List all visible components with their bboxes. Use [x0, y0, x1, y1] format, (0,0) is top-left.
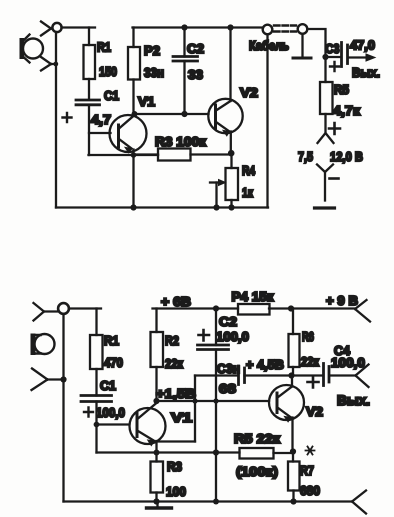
svg-text:C1: C1 [100, 378, 116, 393]
junction dot C3 branch [322, 54, 328, 60]
cable hatch [274, 26, 296, 32]
svg-text:12,0 В: 12,0 В [330, 149, 363, 164]
junction dot R4/bottom rail [228, 204, 234, 210]
svg-text:Вых.: Вых. [352, 65, 380, 80]
label + supply [329, 123, 340, 134]
junction dot R6/rail [288, 305, 294, 311]
svg-text:68: 68 [219, 381, 236, 396]
output arrow (top circuit) [350, 54, 376, 61]
svg-text:Р4 15к: Р4 15к [232, 289, 275, 304]
junction dot R7/bottom rail [290, 498, 296, 504]
junction dot C2/top rail (bottom) [213, 305, 219, 311]
svg-text:1к: 1к [242, 185, 253, 200]
resistor R2 (P2) [128, 28, 140, 115]
connector node circle (bottom circuit) [58, 303, 69, 314]
svg-text:Вых.: Вых. [337, 393, 370, 408]
svg-text:22к: 22к [165, 356, 183, 371]
svg-text:7,5: 7,5 [298, 149, 313, 164]
junction blob C3 leg/base line [192, 398, 197, 403]
capacitor C2 (bottom circuit) [198, 309, 229, 502]
svg-text:R4: R4 [242, 163, 256, 178]
battery connector lower chevron [317, 165, 333, 201]
junction dot C2/feedback [213, 449, 219, 455]
wire: V2 collector up [291, 376, 293, 387]
wire: top rail segment 2 (bottom circuit) [153, 307, 239, 309]
junction blob emitter/R3 line [131, 152, 137, 158]
junction blob base line [94, 422, 100, 428]
wire: emitter link line [157, 440, 196, 442]
wire: V1 emitter to bottom rail [132, 150, 134, 208]
svg-text:47,0: 47,0 [350, 38, 375, 53]
capacitor C2 (top circuit) [173, 28, 198, 115]
resistor P4 [238, 304, 270, 315]
svg-text:R2: R2 [165, 333, 179, 348]
microphone B1 (bottom circuit) [31, 334, 55, 356]
plug arrow input bottom [41, 57, 56, 71]
wire: V1 emitter to R3 [155, 441, 157, 462]
svg-text:Р2: Р2 [144, 43, 160, 58]
svg-text:680: 680 [300, 483, 320, 498]
svg-text:R6: R6 [302, 329, 314, 344]
junction dot emitter V2/R3/R4 [228, 150, 235, 157]
resistor R6 [289, 309, 300, 376]
svg-text:470: 470 [104, 355, 123, 370]
svg-text:4,7: 4,7 [91, 112, 111, 127]
resistor R5 [320, 82, 333, 133]
wire: V2 emitter down [291, 418, 293, 449]
svg-text:33н: 33н [144, 65, 164, 80]
junction blob lower arrow [60, 376, 66, 382]
transistor V1 (bottom circuit) [130, 403, 166, 446]
ground symbol (bottom circuit) [147, 502, 172, 509]
svg-text:R3 100к: R3 100к [155, 134, 207, 149]
wire: V1 base line (bottom) [97, 423, 130, 425]
bottom-right terminal chevron [352, 491, 366, 514]
resistor R4 (trimmer) [226, 155, 239, 208]
wire: left vertical (bottom circuit) [62, 314, 64, 502]
capacitor C4 [292, 364, 356, 386]
resistor R1 [84, 28, 96, 100]
junction dot V2 emitter/R5/R7 [290, 448, 296, 454]
svg-text:R1: R1 [97, 40, 111, 55]
cable connector circle 2 [298, 24, 308, 34]
microphone B1 (top circuit) [20, 35, 44, 63]
resistor R7 [288, 452, 300, 502]
svg-text:R5 22к: R5 22к [234, 431, 281, 446]
resistor R3 [134, 149, 231, 161]
svg-text:R1: R1 [104, 333, 119, 348]
capacitor C1 (top circuit) [76, 100, 100, 155]
svg-text:C1: C1 [104, 88, 119, 103]
resistor R5 (bottom circuit) [240, 448, 294, 459]
resistor R1 (bottom circuit) [90, 309, 103, 396]
svg-text:+ 9 В: + 9 В [326, 293, 358, 308]
junction dot collector/base line [132, 111, 138, 117]
wire: feedback line to R5 (bottom) [97, 451, 240, 453]
resistor R2 (bottom circuit) [151, 309, 164, 402]
wire: top rail segment 2 [133, 26, 264, 28]
wire: top rail segment 1 (bottom circuit) [69, 307, 101, 309]
svg-text:R5: R5 [334, 82, 349, 97]
junction dot wiper/bottom rail [213, 204, 219, 210]
transistor V1 (top circuit) [110, 115, 147, 153]
wire: C3 left leg vertical [194, 376, 196, 442]
svg-text:+ 6В: + 6В [161, 294, 191, 309]
svg-text:C3: C3 [326, 41, 340, 56]
svg-text:V2: V2 [240, 85, 258, 100]
battery connector upper chevron [318, 133, 334, 143]
svg-text:100,0: 100,0 [216, 329, 249, 344]
output terminal chevron (bottom) [356, 365, 369, 388]
svg-text:Кабель: Кабель [249, 38, 289, 53]
svg-text:+ 4,5В: + 4,5В [246, 357, 284, 372]
wire: top rail segment 1 [62, 26, 96, 28]
svg-text:100,0: 100,0 [331, 355, 365, 370]
junction dot V2 collector node [288, 372, 294, 378]
wire: V2 collector to top rail [229, 28, 231, 102]
wire: feedback line to R3 [89, 154, 159, 156]
label R7 [306, 447, 315, 455]
junction blob C2 stem/base line [213, 398, 218, 403]
cable connector circle 1 [263, 25, 273, 35]
cable shield drop to bottom rail [266, 34, 268, 207]
plug arrow input bottom (bottom circuit) [32, 369, 64, 391]
junction blob feedback/R3 stem [154, 450, 160, 456]
junction dot V2 collector/top rail [227, 24, 233, 30]
junction dot R3/bottom rail [153, 498, 159, 504]
svg-text:C2: C2 [219, 314, 237, 329]
svg-text:33: 33 [188, 67, 203, 82]
plug arrow input top (bottom circuit) [34, 303, 59, 321]
wire: V2 emitter down [230, 132, 232, 155]
wire: left vertical to bottom rail [55, 32, 57, 208]
svg-text:R3: R3 [167, 459, 182, 474]
svg-text:+1,5В: +1,5В [156, 386, 196, 401]
svg-text:C2: C2 [187, 41, 204, 56]
wire: output branch vertical [307, 29, 325, 82]
junction dot C2/bottom rail [213, 499, 219, 505]
svg-text:(100к): (100к) [236, 464, 278, 479]
capacitor C1 (bottom circuit) [81, 396, 112, 453]
plug arrow input top [41, 22, 54, 36]
wire: top rail segment 3 to +9V [269, 307, 355, 309]
R4 wiper arrow [210, 180, 226, 208]
wire: V1 base line [89, 132, 111, 134]
wire: V1 collector / V2 base line [134, 113, 209, 115]
junction dot C2/base line [181, 111, 187, 117]
+9V terminal chevron [355, 300, 370, 322]
junction dot emitter/bottom rail [130, 204, 136, 210]
connector node circle (top-left) [52, 23, 61, 32]
svg-text:V2: V2 [306, 404, 323, 419]
resistor R3 (bottom circuit) [151, 462, 164, 502]
svg-text:100: 100 [166, 484, 186, 499]
capacitor C3n [195, 366, 290, 385]
junction dot C2/top rail [181, 24, 187, 30]
ground (battery minus) [315, 206, 335, 209]
shield ground of cable right [293, 34, 311, 58]
svg-text:V1: V1 [171, 410, 192, 425]
svg-text:4,7к: 4,7к [333, 103, 361, 118]
svg-text:C3н: C3н [217, 361, 240, 376]
svg-text:100,0: 100,0 [96, 405, 125, 420]
wire: V2 base line (bottom) [157, 400, 270, 402]
transistor V2 (top circuit) [208, 99, 242, 136]
wire: bottom rail (bottom circuit) [64, 500, 353, 502]
junction dot R2/V1 collector [153, 398, 159, 404]
svg-text:150: 150 [99, 64, 117, 79]
transistor V2 (bottom circuit) [269, 385, 304, 422]
svg-text:R7: R7 [300, 463, 314, 478]
junction blob arrow joins left vertical [53, 62, 58, 67]
wire: bottom rail (top circuit) [56, 206, 268, 208]
capacitor C3 (top circuit) [326, 43, 348, 67]
svg-text:V1: V1 [138, 94, 155, 109]
svg-text:22к: 22к [301, 354, 319, 369]
